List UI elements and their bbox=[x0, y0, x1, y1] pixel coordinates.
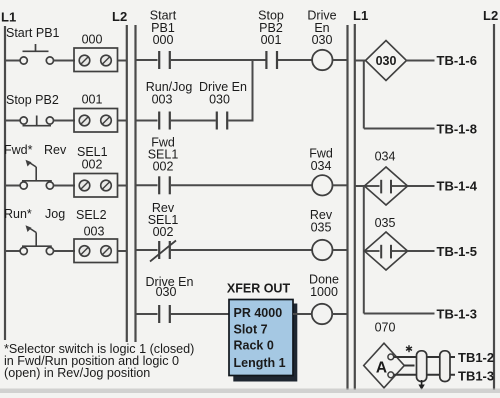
svg-text:Length 1: Length 1 bbox=[234, 356, 286, 370]
wire middle ladder right rail bbox=[346, 25, 348, 390]
svg-text:1000: 1000 bbox=[310, 285, 338, 299]
svg-text:TB1-3: TB1-3 bbox=[458, 369, 494, 384]
svg-text:000: 000 bbox=[153, 33, 174, 47]
CT bar right bbox=[440, 351, 450, 382]
wire ammeter middle stub bbox=[404, 365, 414, 367]
contact Drive En 030 (NO) bbox=[159, 305, 170, 323]
svg-text:TB-1-8: TB-1-8 bbox=[437, 122, 477, 137]
node labels Drive En 030 (rung5) bbox=[146, 275, 194, 299]
svg-text:Rev: Rev bbox=[44, 143, 67, 157]
wire rung3 coil to rail bbox=[333, 184, 349, 186]
node labels Stop PB2 001 bbox=[258, 9, 284, 48]
wire output 035 to TB-1-5 bbox=[408, 250, 435, 252]
wire branch to vertical bbox=[228, 120, 253, 122]
XFER OUT block text bbox=[234, 306, 286, 370]
svg-text:L2: L2 bbox=[112, 9, 127, 24]
wire rung1 to coil bbox=[278, 59, 312, 61]
contact Stop PB2 001 (NO) bbox=[266, 51, 277, 69]
terminal block 002 bbox=[74, 174, 118, 198]
wire row4 from L1 to SEL2 bbox=[5, 250, 20, 252]
svg-text:035: 035 bbox=[375, 216, 396, 230]
contact Run/Jog 003 (NO) bbox=[159, 112, 170, 130]
svg-text:030: 030 bbox=[209, 93, 230, 107]
svg-text:030: 030 bbox=[156, 285, 177, 299]
wire rung1 coil to right rail bbox=[333, 59, 349, 61]
coil Drive En 030 bbox=[312, 50, 332, 70]
wire right L1 rail bbox=[354, 24, 356, 390]
svg-text:L2: L2 bbox=[483, 8, 498, 23]
wire row3 from L1 to SEL1 bbox=[5, 185, 20, 187]
svg-text:030: 030 bbox=[312, 33, 333, 47]
wire row3 SEL1 to terminal bbox=[54, 185, 76, 187]
svg-text:070: 070 bbox=[375, 321, 396, 335]
contact Fwd SEL1 002 (NO) bbox=[159, 176, 170, 194]
wire ammeter bottom to TB1-3 bbox=[392, 374, 455, 376]
wire branch down to TB-1-8 bbox=[363, 61, 365, 129]
wire middle ladder left rail bbox=[134, 25, 136, 342]
svg-text:PR 4000: PR 4000 bbox=[234, 306, 283, 320]
ammeter A 070 (diamond) bbox=[364, 343, 405, 388]
wire to TB-1-8 bbox=[364, 128, 435, 130]
svg-text:Start PB1: Start PB1 bbox=[6, 26, 60, 40]
pushbutton PB1 (NO) bbox=[20, 44, 53, 64]
wire rung5 coil to rail bbox=[332, 313, 348, 315]
output contact 035 (diamond) bbox=[364, 232, 407, 270]
terminal block 000 bbox=[74, 48, 118, 72]
svg-text:A: A bbox=[376, 360, 387, 377]
wire rung4 coil to rail bbox=[333, 249, 349, 251]
wire rung3 contact to coil bbox=[171, 184, 312, 186]
asterisk polarity mark bbox=[406, 345, 412, 352]
svg-text:000: 000 bbox=[82, 33, 103, 47]
wire to TB-1-3 bbox=[364, 313, 435, 315]
selector switch SEL2 bbox=[20, 225, 53, 254]
wire row1 terminal to L2 bbox=[118, 60, 127, 62]
wire row2 terminal to L2 bbox=[118, 120, 127, 122]
node labels Run/Jog 003 bbox=[146, 80, 193, 107]
wire L1 left rail bbox=[4, 26, 6, 340]
output lamp 030 (diamond) bbox=[366, 41, 407, 81]
wire row1 from L1 to PB1 bbox=[5, 60, 20, 62]
node labels Drive En 030 (branch) bbox=[199, 80, 247, 107]
node labels Done 1000 bbox=[309, 273, 339, 300]
wire rung4 rail to contact bbox=[136, 249, 158, 251]
terminal block 003 bbox=[74, 239, 118, 263]
contact Drive En 030 (NO) bbox=[217, 112, 227, 130]
output contact 034 (diamond) bbox=[364, 167, 407, 205]
CT bar left bbox=[417, 351, 427, 382]
wire row2 PB2 to terminal bbox=[54, 120, 76, 122]
wire rung4 contact to coil bbox=[171, 249, 312, 251]
wire ammeter top to TB1-2 bbox=[392, 356, 455, 358]
coil Rev 035 bbox=[312, 240, 332, 260]
svg-text:002: 002 bbox=[82, 158, 103, 172]
wire branch rail to contact bbox=[136, 120, 158, 122]
wire row3 terminal to L2 bbox=[118, 185, 127, 187]
svg-text:003: 003 bbox=[152, 93, 173, 107]
wire L1 to output 030 bbox=[355, 60, 366, 62]
wire rung5 contact to XFER box bbox=[171, 313, 230, 315]
wire output 030 to TB-1-6 bbox=[407, 60, 435, 62]
svg-text:Run*: Run* bbox=[4, 207, 32, 221]
svg-text:TB-1-5: TB-1-5 bbox=[437, 244, 477, 259]
wire rung1 contact to Stop contact bbox=[171, 59, 266, 61]
svg-text:Jog: Jog bbox=[45, 207, 65, 221]
svg-text:030: 030 bbox=[376, 54, 397, 68]
node labels Fwd SEL1 002 bbox=[148, 136, 179, 174]
svg-text:001: 001 bbox=[261, 33, 282, 47]
contact Rev SEL1 002 (NC) bbox=[150, 241, 176, 262]
XFER OUT block shadow bbox=[233, 304, 297, 382]
svg-text:Fwd*: Fwd* bbox=[4, 143, 33, 157]
svg-text:002: 002 bbox=[153, 160, 174, 174]
wire branch between contacts bbox=[171, 120, 216, 122]
note text bbox=[4, 342, 194, 380]
wire rung5 rail to contact bbox=[136, 313, 158, 315]
node labels Start PB1 000 bbox=[150, 9, 177, 48]
svg-text:(open) in Rev/Jog position: (open) in Rev/Jog position bbox=[4, 366, 150, 380]
svg-text:034: 034 bbox=[311, 159, 332, 173]
svg-text:SEL2: SEL2 bbox=[76, 208, 107, 222]
terminal dot bottom bbox=[388, 372, 394, 378]
wire row4 terminal to L2 bbox=[118, 250, 127, 252]
node labels Rev 035 bbox=[310, 208, 333, 235]
svg-text:001: 001 bbox=[82, 93, 103, 107]
wire rung3 rail to contact bbox=[136, 184, 158, 186]
svg-text:XFER OUT: XFER OUT bbox=[227, 282, 291, 296]
wire rung1 rail to contact bbox=[136, 59, 158, 61]
wire branch vertical rung1 bbox=[252, 60, 254, 121]
wire row1 PB1 to terminal bbox=[54, 60, 76, 62]
svg-text:TB-1-4: TB-1-4 bbox=[437, 179, 478, 194]
wire row2 from L1 to PB2 bbox=[5, 120, 20, 122]
node labels Rev SEL1 002 bbox=[148, 201, 179, 239]
svg-text:TB1-2: TB1-2 bbox=[458, 350, 494, 365]
svg-text:034: 034 bbox=[375, 150, 396, 164]
svg-text:002: 002 bbox=[153, 225, 174, 239]
terminal block 001 bbox=[74, 109, 118, 133]
node labels Fwd 034 bbox=[309, 147, 333, 174]
pushbutton PB2 (NC) bbox=[20, 116, 53, 126]
XFER OUT block bbox=[229, 300, 293, 376]
svg-text:003: 003 bbox=[84, 225, 105, 239]
contact Start PB1 000 (NO) bbox=[159, 51, 170, 69]
svg-text:L1: L1 bbox=[353, 8, 368, 23]
coil Done 1000 bbox=[312, 304, 332, 324]
svg-text:035: 035 bbox=[311, 221, 332, 235]
svg-text:L1: L1 bbox=[1, 10, 16, 25]
terminal dot top bbox=[388, 354, 394, 360]
ground arrow below CT bbox=[418, 380, 424, 390]
wire vertical 034 to 035 to TB-1-3 bbox=[363, 186, 365, 314]
wire L2 left-section rail bbox=[126, 25, 128, 342]
svg-text:TB-1-3: TB-1-3 bbox=[437, 307, 477, 322]
node labels Drive En 030 bbox=[307, 9, 336, 48]
svg-text:Slot 7: Slot 7 bbox=[234, 323, 268, 337]
svg-text:Stop PB2: Stop PB2 bbox=[6, 93, 59, 107]
wire row4 SEL2 to terminal bbox=[54, 250, 76, 252]
wire rung5 box to coil bbox=[293, 313, 312, 315]
bottom scan band bbox=[0, 389, 500, 394]
wire output 034 to TB-1-4 bbox=[408, 185, 435, 187]
svg-text:Rack 0: Rack 0 bbox=[234, 339, 274, 353]
wire right L2 rail bbox=[493, 24, 495, 390]
wire L1 to output 034 bbox=[355, 185, 365, 187]
selector switch SEL1 bbox=[20, 160, 53, 189]
coil Fwd 034 bbox=[312, 175, 332, 195]
svg-text:TB-1-6: TB-1-6 bbox=[437, 53, 477, 68]
